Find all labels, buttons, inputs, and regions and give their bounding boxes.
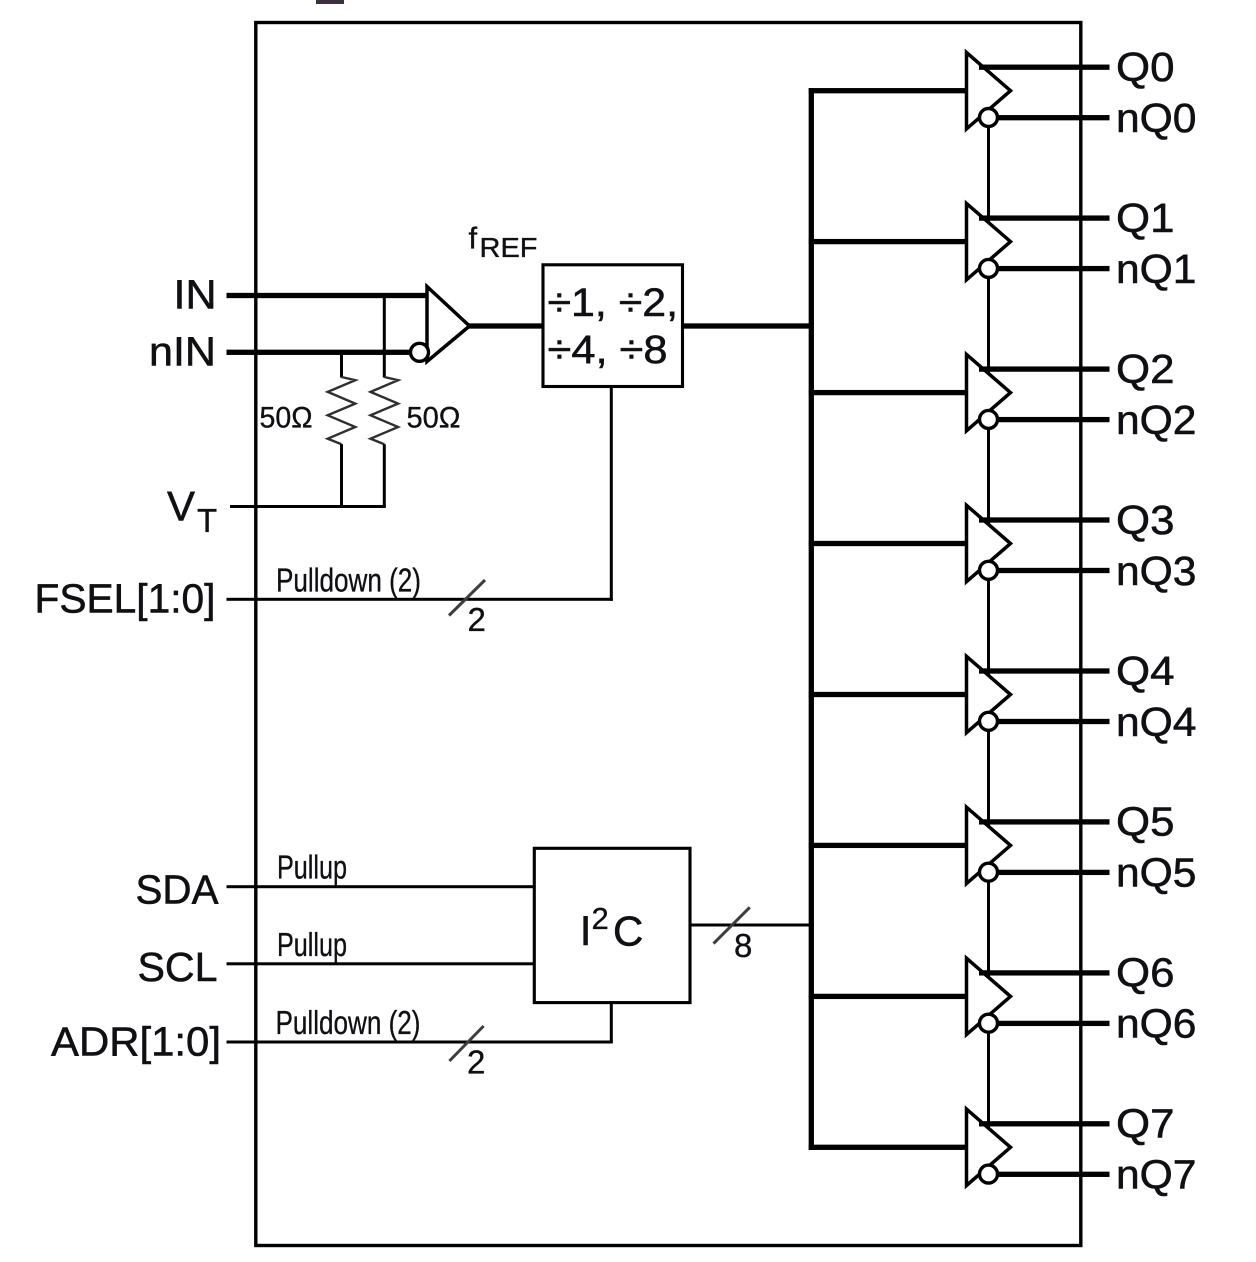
- wire IN dropper to right 50ohm resistor: [383, 296, 386, 378]
- svg-text:Q3: Q3: [1116, 497, 1175, 543]
- wire SCL: [227, 962, 535, 965]
- svg-text:nQ0: nQ0: [1116, 95, 1197, 141]
- svg-text:FSEL[1:0]: FSEL[1:0]: [35, 576, 216, 622]
- resistor R1 bottom lead: [340, 444, 343, 506]
- svg-text:2: 2: [468, 601, 486, 638]
- svg-text:2: 2: [592, 901, 609, 936]
- resistor R1 50ohm (left, on nIN) zigzag: [328, 377, 356, 444]
- wire Q6 output: [979, 970, 1110, 975]
- svg-text:SDA: SDA: [136, 866, 220, 912]
- output buffer U9 triangle Q5: [967, 807, 1011, 883]
- wire nIN dropper to left 50ohm resistor: [340, 352, 343, 377]
- inversion bubble on nQ5 output: [980, 863, 998, 881]
- inversion bubble on nQ6 output: [980, 1014, 998, 1032]
- svg-text:Q7: Q7: [1116, 1101, 1175, 1147]
- resistor R2 bottom lead: [383, 444, 386, 506]
- inversion bubble on nQ7 output: [980, 1165, 998, 1183]
- resistor R2 50ohm (right, on IN) zigzag: [371, 377, 399, 444]
- output buffer U6 triangle Q2: [967, 354, 1011, 430]
- output buffer U8 triangle Q4: [967, 656, 1011, 732]
- wire fREF: buffer output to divider: [467, 323, 543, 328]
- wire Q4 output: [979, 668, 1110, 673]
- inversion bubble on nQ3 output: [980, 561, 998, 579]
- wire nQ4 output: [997, 719, 1109, 724]
- wire buffer 6 input from bus: [809, 994, 967, 999]
- svg-text:Pullup: Pullup: [277, 849, 347, 886]
- svg-text:I: I: [580, 907, 592, 954]
- ADR bus-width slash: [449, 1026, 483, 1061]
- FSEL bus-width slash: [449, 580, 485, 616]
- wire buffer 2 input from bus: [809, 390, 967, 395]
- svg-text:Q6: Q6: [1116, 950, 1175, 996]
- wire buffer 0 input from bus: [809, 88, 967, 93]
- svg-text:nQ7: nQ7: [1116, 1152, 1197, 1198]
- svg-text:nQ6: nQ6: [1116, 1001, 1197, 1047]
- wire Q3 output: [979, 517, 1110, 522]
- wire nQ1 output: [997, 266, 1109, 271]
- svg-text:f: f: [469, 221, 478, 256]
- svg-text:nQ5: nQ5: [1116, 850, 1197, 896]
- wire nIN input: [227, 350, 410, 355]
- svg-text:nQ3: nQ3: [1116, 548, 1197, 594]
- inversion bubble on nQ1 output: [980, 259, 998, 277]
- svg-text:Q5: Q5: [1116, 799, 1175, 845]
- output buffer U7 triangle Q3: [967, 505, 1011, 581]
- svg-text:IN: IN: [174, 272, 217, 318]
- output buffer U5 triangle Q1: [967, 203, 1011, 279]
- inversion bubble on nQ0 output: [980, 109, 998, 127]
- svg-text:Q0: Q0: [1116, 44, 1175, 90]
- output buffer U11 triangle Q7: [967, 1109, 1011, 1185]
- inverted-output chain line (vertical, behind buffers): [987, 118, 990, 1175]
- wire divider FSEL select vertical: [610, 387, 613, 601]
- svg-text:Q1: Q1: [1116, 195, 1175, 241]
- wire buffer 4 input from bus: [809, 692, 967, 697]
- svg-text:2: 2: [467, 1044, 485, 1081]
- svg-text:nIN: nIN: [149, 328, 216, 374]
- svg-text:Pullup: Pullup: [277, 926, 347, 963]
- op-amp U1 input buffer triangle: [427, 287, 470, 362]
- wire ADR[1:0]: [227, 1041, 613, 1044]
- wire ADR vertical into I2C block: [610, 1003, 613, 1043]
- inversion bubble on nQ4 output: [980, 712, 998, 730]
- wire divider output to clock bus: [683, 323, 814, 328]
- svg-text:Pulldown (2): Pulldown (2): [276, 562, 421, 599]
- svg-text:÷1, ÷2,: ÷1, ÷2,: [548, 281, 679, 325]
- wire nQ3 output: [997, 568, 1109, 573]
- svg-text:Q2: Q2: [1116, 346, 1175, 392]
- svg-text:T: T: [197, 502, 217, 539]
- svg-text:REF: REF: [480, 232, 538, 263]
- svg-text:C: C: [613, 907, 643, 954]
- wire nQ5 output: [997, 870, 1109, 875]
- wire nQ7 output: [997, 1172, 1109, 1177]
- output buffer U10 triangle Q6: [967, 958, 1011, 1034]
- svg-text:8: 8: [734, 927, 752, 964]
- svg-text:50Ω: 50Ω: [260, 402, 313, 435]
- output buffer U4 triangle Q0: [967, 53, 1011, 129]
- wire buffer 5 input from bus: [809, 843, 967, 848]
- svg-text:50Ω: 50Ω: [407, 402, 461, 435]
- wire Q0 output: [979, 65, 1110, 70]
- clock distribution bus (vertical): [809, 88, 814, 1150]
- wire Q2 output: [979, 366, 1110, 371]
- inversion bubble on nIN input of U1: [411, 343, 429, 361]
- wire IN input: [227, 293, 431, 298]
- wire nQ0 output: [997, 115, 1109, 120]
- svg-text:Q4: Q4: [1116, 648, 1175, 694]
- wire FSEL[1:0]: [227, 598, 613, 601]
- svg-text:ADR[1:0]: ADR[1:0]: [51, 1019, 221, 1065]
- svg-text:nQ2: nQ2: [1116, 397, 1197, 443]
- svg-text:SCL: SCL: [138, 944, 218, 990]
- wire nQ2 output: [997, 417, 1109, 422]
- wire nQ6 output: [997, 1021, 1109, 1026]
- wire Q7 output: [979, 1121, 1110, 1126]
- svg-text:nQ4: nQ4: [1116, 699, 1197, 745]
- wire SDA: [227, 885, 535, 888]
- I2C bus-width slash: [714, 907, 750, 943]
- svg-text:÷4, ÷8: ÷4, ÷8: [548, 328, 668, 372]
- svg-text:nQ1: nQ1: [1116, 246, 1197, 292]
- figure caption remnant (cut-off text at top edge): [316, 0, 344, 4]
- svg-text:V: V: [167, 483, 195, 530]
- svg-text:Pulldown (2): Pulldown (2): [276, 1004, 421, 1041]
- wire Q5 output: [979, 819, 1110, 824]
- divider block U2 box: [543, 265, 683, 387]
- chip boundary rectangle: [256, 23, 1081, 1246]
- wire I2C output to bus: [690, 924, 814, 927]
- I2C block U3 box: [534, 848, 690, 1002]
- wire Q1 output: [979, 215, 1110, 220]
- wire buffer 3 input from bus: [809, 541, 967, 546]
- inversion bubble on nQ2 output: [980, 410, 998, 428]
- wire VT termination rail: [230, 505, 386, 508]
- wire buffer 1 input from bus: [809, 239, 967, 244]
- wire buffer 7 input from bus: [809, 1145, 967, 1150]
